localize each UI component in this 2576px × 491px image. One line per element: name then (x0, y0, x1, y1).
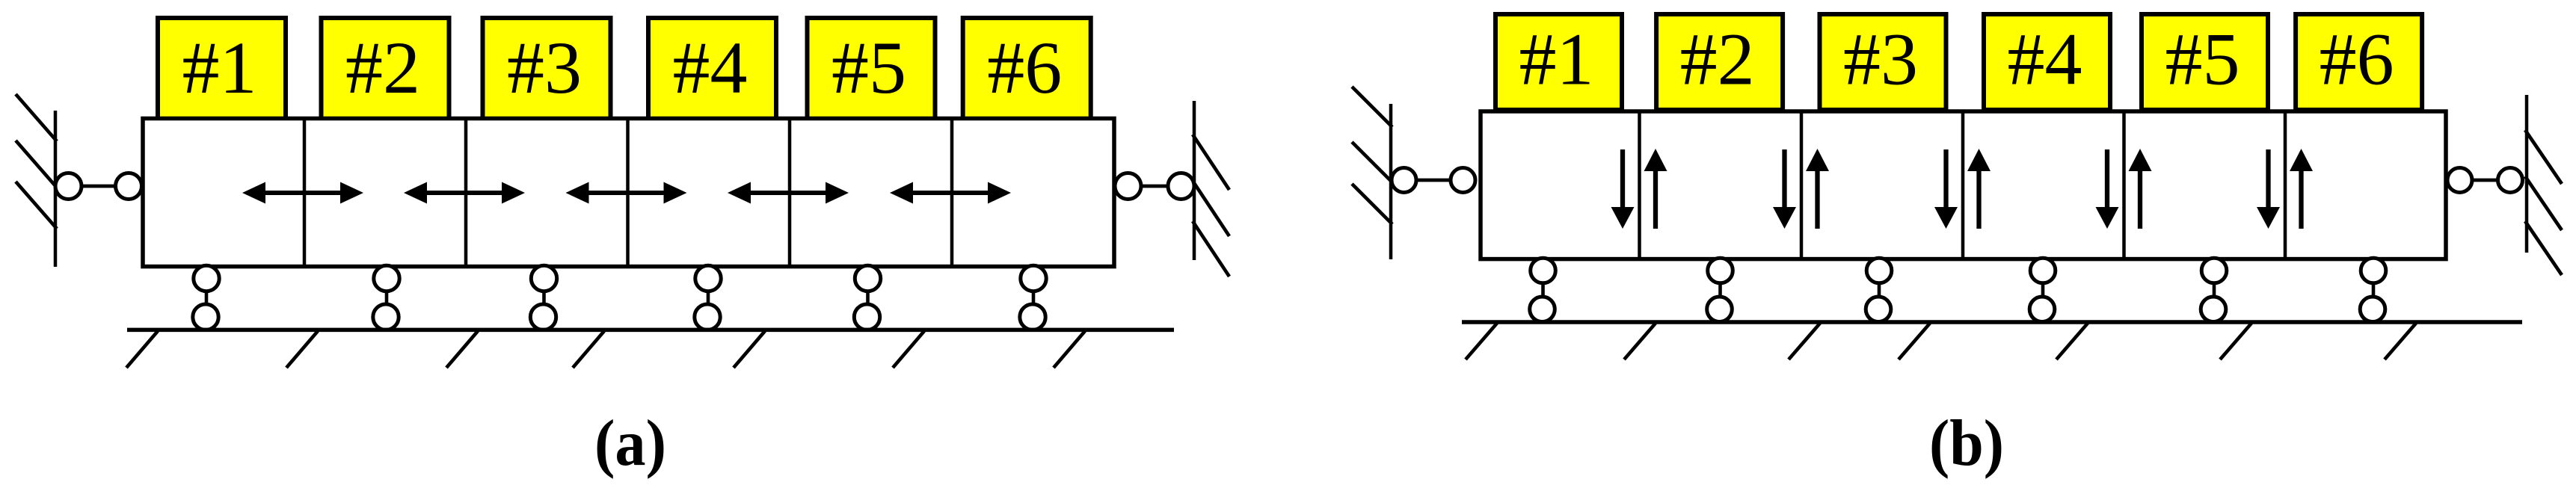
svg-text:#2: #2 (345, 26, 420, 109)
svg-text:#5: #5 (831, 26, 906, 109)
svg-text:#6: #6 (987, 26, 1062, 109)
svg-text:(b): (b) (1929, 407, 2004, 480)
svg-text:#1: #1 (1519, 18, 1594, 101)
svg-text:#1: #1 (182, 26, 257, 109)
svg-text:#6: #6 (2320, 18, 2394, 101)
svg-text:(a): (a) (594, 407, 666, 480)
svg-text:#2: #2 (1680, 18, 1755, 101)
svg-text:#5: #5 (2165, 18, 2240, 101)
svg-text:#3: #3 (1843, 18, 1918, 101)
svg-text:#4: #4 (673, 26, 748, 109)
svg-text:#3: #3 (507, 26, 582, 109)
svg-text:#4: #4 (2008, 18, 2082, 101)
